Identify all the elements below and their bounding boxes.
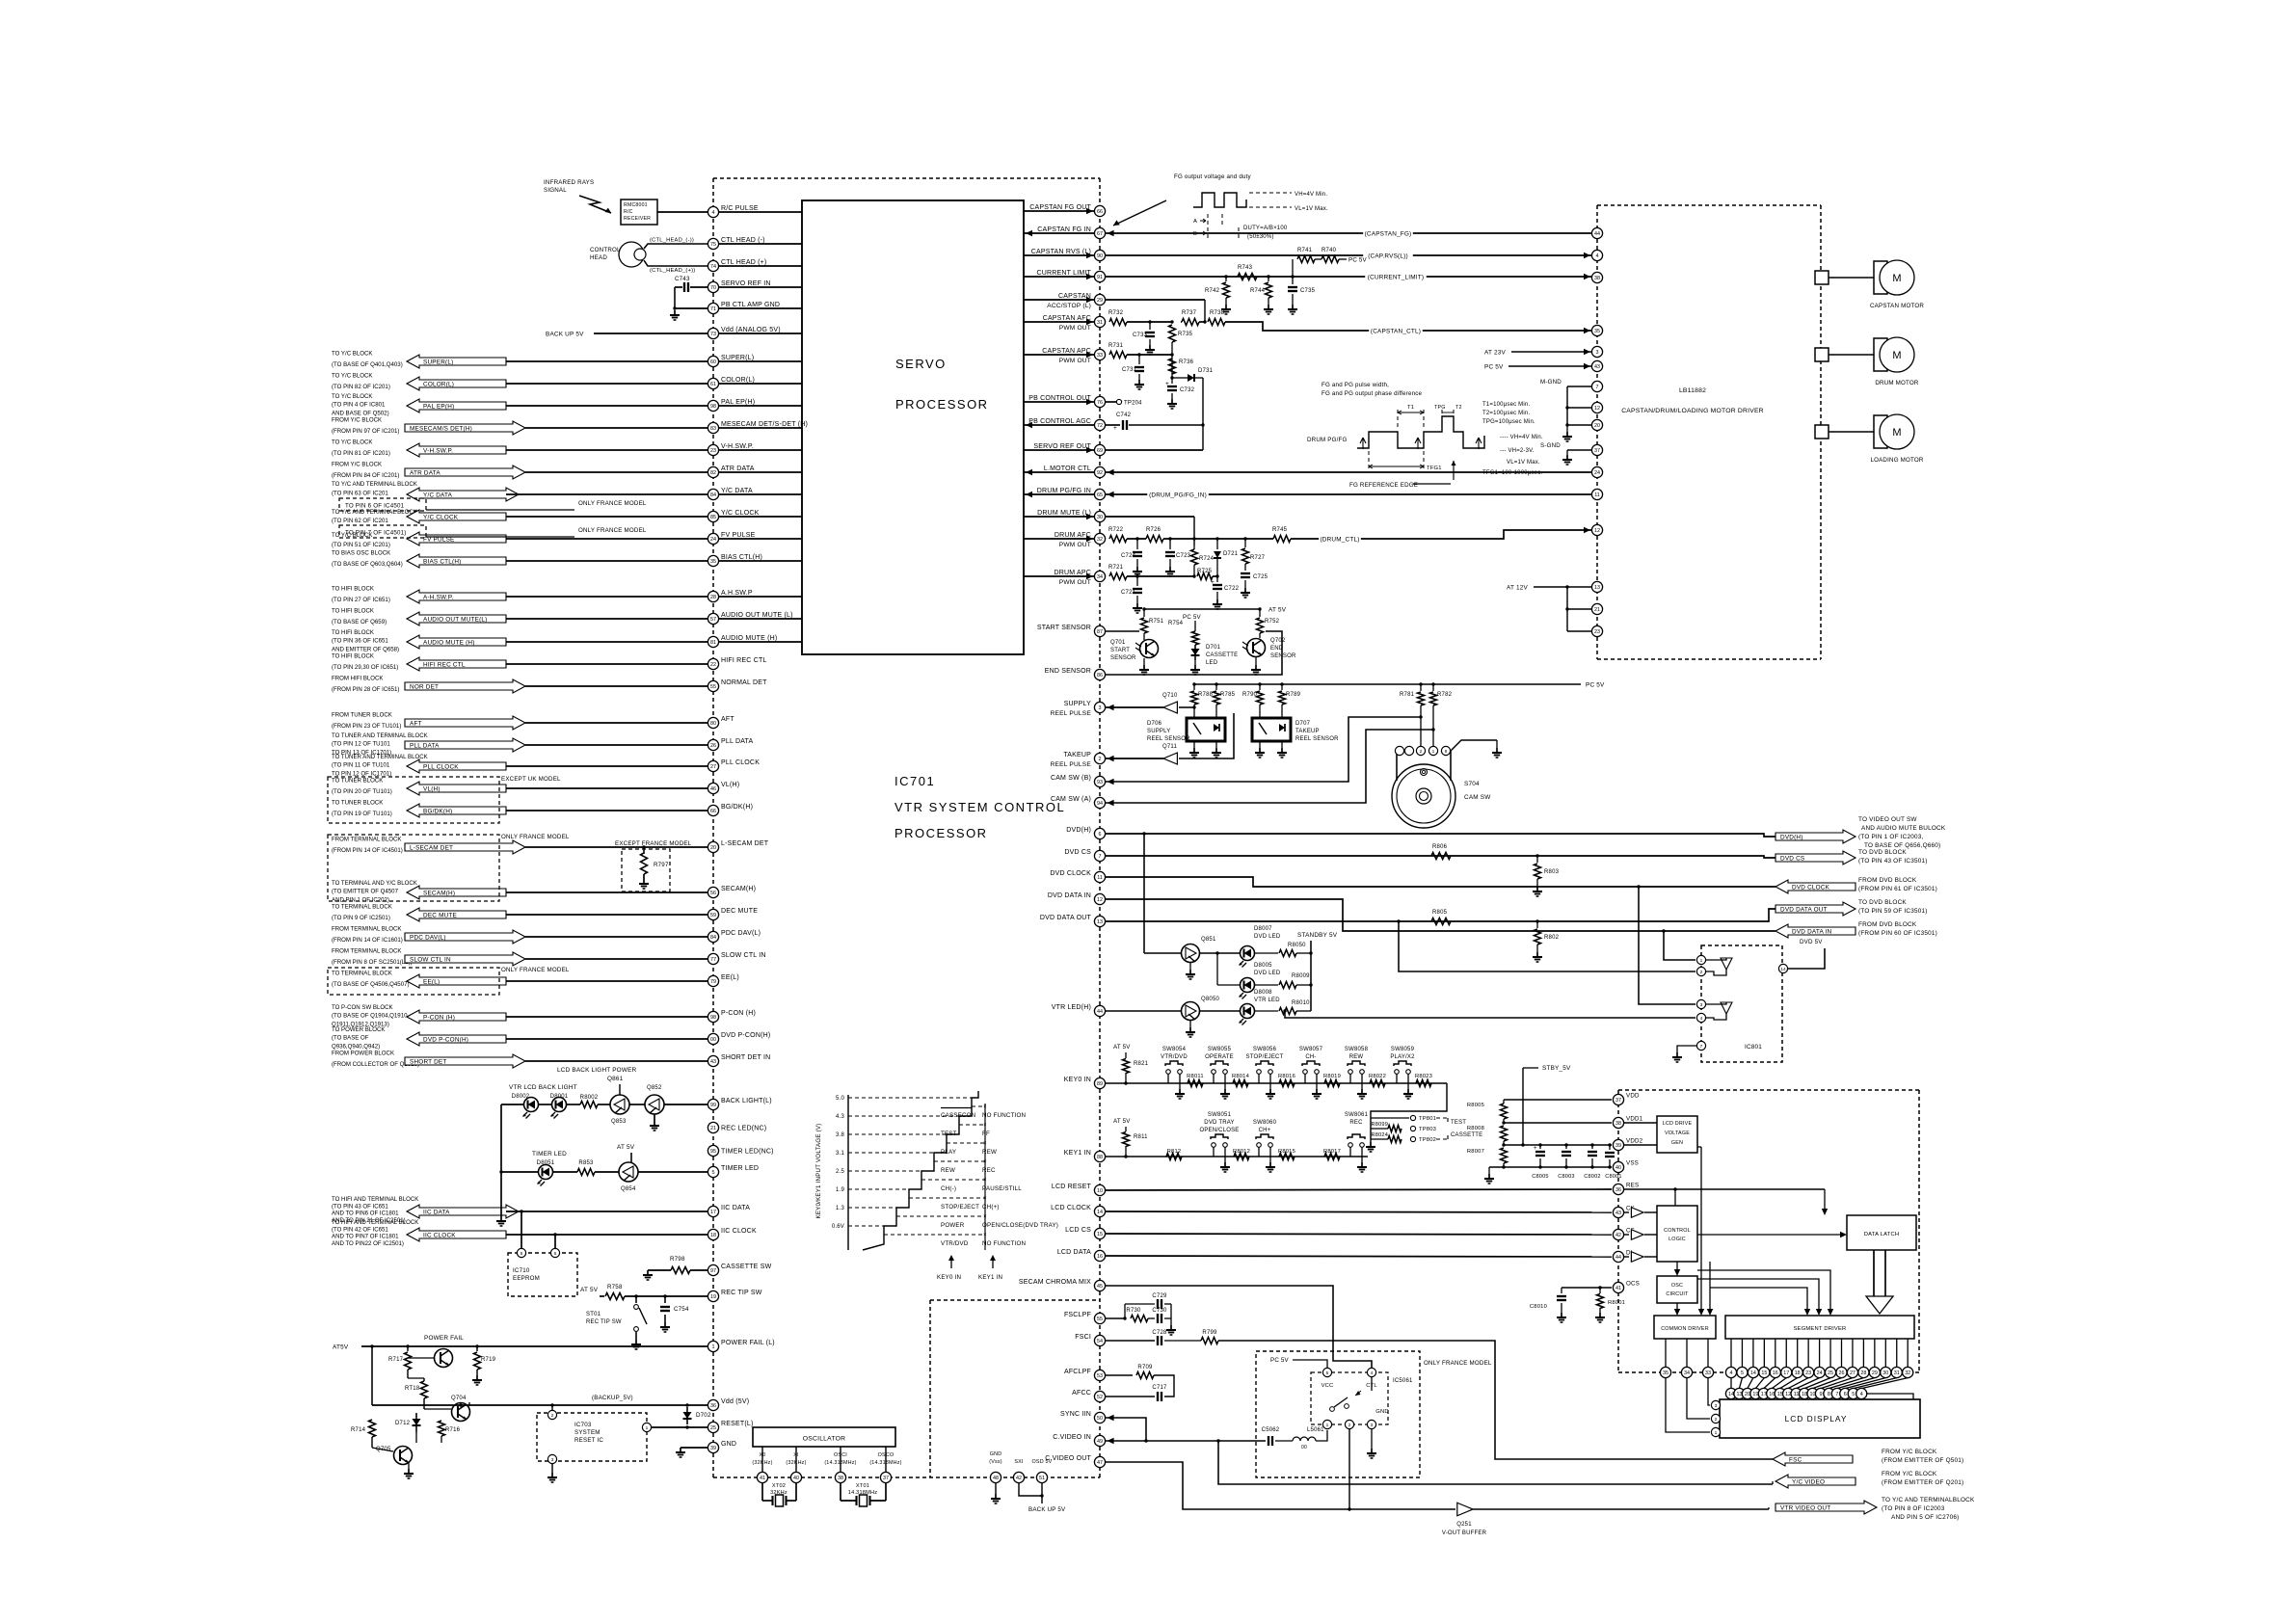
- svg-text:TO VIDEO OUT SW: TO VIDEO OUT SW: [1858, 816, 1917, 823]
- wire: [500, 1104, 502, 1216]
- svg-text:CH+: CH+: [1259, 1128, 1271, 1133]
- svg-text:97: 97: [710, 1268, 716, 1274]
- svg-text:BIAS CTL(H): BIAS CTL(H): [423, 558, 461, 565]
- svg-text:ATR DATA: ATR DATA: [410, 469, 441, 476]
- svg-text:SERVO REF IN: SERVO REF IN: [721, 280, 771, 287]
- ground: [1189, 970, 1191, 974]
- wire: [1024, 276, 1094, 278]
- svg-text:C5062: C5062: [1262, 1427, 1280, 1433]
- svg-text:49: 49: [1097, 1439, 1103, 1445]
- svg-text:DVD LED: DVD LED: [1254, 971, 1281, 976]
- ground: [1259, 748, 1261, 753]
- svg-text:ONLY FRANCE MODEL: ONLY FRANCE MODEL: [1424, 1360, 1492, 1367]
- ctrl to segment lines: [1697, 1270, 1830, 1311]
- svg-text:18: 18: [1795, 1370, 1801, 1376]
- wire iic clock to eeprom: [554, 1235, 556, 1248]
- svg-text:26: 26: [1839, 1370, 1845, 1376]
- signal tag DEC MUTE: [407, 908, 506, 921]
- svg-text:24: 24: [1817, 1370, 1823, 1376]
- svg-text:21: 21: [1594, 607, 1600, 613]
- svg-text:BACK UP 5V: BACK UP 5V: [1028, 1506, 1066, 1513]
- ground: [1255, 665, 1257, 670]
- svg-text:SYSTEM: SYSTEM: [574, 1429, 601, 1436]
- svg-text:(TO PIN 20 OF TU101): (TO PIN 20 OF TU101): [332, 788, 392, 795]
- svg-text:CASSETTE SW: CASSETTE SW: [721, 1264, 772, 1270]
- svg-text:R732: R732: [1108, 310, 1124, 316]
- resistor R730: [1131, 1316, 1148, 1322]
- svg-text:CAPSTAN FG OUT: CAPSTAN FG OUT: [1029, 204, 1091, 211]
- svg-text:7: 7: [1700, 1044, 1703, 1050]
- tag DVD DATA OUT: [1775, 902, 1855, 916]
- svg-text:R724: R724: [1199, 556, 1215, 562]
- svg-text:11: 11: [1097, 875, 1103, 881]
- resistor R724: [1191, 549, 1198, 565]
- svg-text:59: 59: [710, 913, 716, 918]
- svg-text:44: 44: [1594, 231, 1600, 237]
- resistor R738: [1208, 319, 1225, 326]
- capacitor C722: [1216, 576, 1218, 582]
- svg-text:R782: R782: [1437, 692, 1453, 698]
- svg-text:C725: C725: [1253, 574, 1268, 580]
- svg-text:C8002: C8002: [1584, 1174, 1600, 1180]
- svg-text:(TO BASE OF Q401,Q403): (TO BASE OF Q401,Q403): [332, 361, 403, 368]
- svg-text:Vdd (5V): Vdd (5V): [721, 1398, 749, 1405]
- svg-text:R722: R722: [1108, 527, 1124, 533]
- IC710 EEPROM dashed box: [508, 1253, 577, 1296]
- wire: [1024, 516, 1094, 518]
- svg-text:4: 4: [1860, 1392, 1863, 1397]
- svg-text:R745: R745: [1272, 527, 1288, 533]
- wire key0 tail: [1371, 1083, 1447, 1142]
- svg-text:R797: R797: [654, 862, 669, 868]
- svg-text:R8002: R8002: [580, 1095, 599, 1101]
- wire backup_5v: [372, 1404, 707, 1406]
- svg-text:33: 33: [1705, 1370, 1711, 1376]
- svg-text:T2=100μsec Min.: T2=100μsec Min.: [1482, 411, 1530, 416]
- svg-text:77: 77: [710, 957, 716, 963]
- svg-text:Q701: Q701: [1110, 640, 1126, 646]
- svg-text:DRUM PG/FG IN: DRUM PG/FG IN: [1037, 488, 1091, 494]
- svg-text:RES: RES: [1626, 1183, 1639, 1189]
- svg-text:(TO PIN 63 OF IC201: (TO PIN 63 OF IC201: [332, 491, 388, 497]
- svg-text:4: 4: [1371, 1370, 1374, 1376]
- svg-text:SW8059: SW8059: [1391, 1047, 1415, 1052]
- pin 5 TIMER LED: [707, 1166, 718, 1177]
- svg-text:99: 99: [710, 1103, 716, 1108]
- ground: [995, 1494, 997, 1499]
- svg-text:R802: R802: [1544, 935, 1560, 941]
- svg-text:60: 60: [710, 359, 716, 365]
- svg-text:HIFI REC CTL: HIFI REC CTL: [721, 657, 767, 664]
- svg-text:(TO PIN 43 OF IC651: (TO PIN 43 OF IC651: [332, 1203, 388, 1210]
- svg-text:CH(-): CH(-): [941, 1185, 956, 1192]
- svg-text:PB CONTROL OUT: PB CONTROL OUT: [1028, 395, 1091, 402]
- svg-text:D712: D712: [395, 1421, 411, 1426]
- svg-text:46: 46: [710, 786, 716, 792]
- wire: [1024, 299, 1094, 301]
- svg-text:TO HIFI AND TERMINAL BLOCK: TO HIFI AND TERMINAL BLOCK: [332, 1196, 418, 1203]
- svg-text:NORMAL DET: NORMAL DET: [721, 679, 767, 686]
- svg-text:BG/DK(H): BG/DK(H): [721, 804, 753, 811]
- svg-text:R751: R751: [1149, 619, 1164, 625]
- AFCC C717: [1106, 1396, 1155, 1397]
- wires common to lcd: [1666, 1378, 1710, 1432]
- svg-text:DVD DATA IN: DVD DATA IN: [1048, 892, 1091, 899]
- transistor power fail: [435, 1349, 453, 1368]
- LCD drive voltage gen: [1657, 1116, 1697, 1153]
- common driver box: [1654, 1316, 1716, 1339]
- svg-text:VH=4V Min.: VH=4V Min.: [1295, 192, 1327, 198]
- lcd display pin 18: [1804, 1378, 1830, 1389]
- svg-text:Q710: Q710: [1162, 693, 1178, 699]
- svg-text:VSS: VSS: [1626, 1160, 1639, 1167]
- svg-text:R742: R742: [1205, 288, 1220, 294]
- svg-text:R8022: R8022: [1369, 1074, 1386, 1079]
- svg-text:8: 8: [1445, 749, 1448, 755]
- ground: [1536, 887, 1538, 891]
- svg-text:COMMON DRIVER: COMMON DRIVER: [1661, 1326, 1709, 1332]
- svg-text:20: 20: [710, 845, 716, 851]
- svg-text:FROM HIFI BLOCK: FROM HIFI BLOCK: [332, 676, 384, 682]
- svg-text:CAPSTAN MOTOR: CAPSTAN MOTOR: [1870, 303, 1924, 309]
- svg-text:R725: R725: [1197, 569, 1213, 574]
- svg-text:TP801: TP801: [1419, 1116, 1436, 1122]
- signal tag SUPER(L): [407, 355, 506, 368]
- svg-text:HEAD: HEAD: [590, 254, 607, 261]
- pin 36 Vdd 5V: [707, 1399, 718, 1410]
- tag DVD CLOCK: [1775, 880, 1855, 893]
- svg-text:PC 5V: PC 5V: [1484, 363, 1504, 370]
- segment driver pin 32: [1907, 1339, 1909, 1367]
- segment driver pin 27: [1852, 1339, 1854, 1367]
- svg-text:KEY1 IN: KEY1 IN: [978, 1274, 1002, 1281]
- IC5061 inner dashed box: [1311, 1372, 1388, 1424]
- svg-text:VCC: VCC: [1322, 1383, 1334, 1389]
- svg-text:(TO PIN 27 OF IC651): (TO PIN 27 OF IC651): [332, 597, 390, 603]
- svg-text:NO FUNCTION: NO FUNCTION: [982, 1240, 1026, 1247]
- svg-text:TIMER LED: TIMER LED: [532, 1151, 567, 1157]
- pin 42 SXI: [1013, 1472, 1024, 1482]
- signal tag BG/DK(H): [407, 804, 506, 817]
- svg-text:S704: S704: [1464, 781, 1480, 787]
- svg-text:ONLY FRANCE MODEL: ONLY FRANCE MODEL: [501, 834, 570, 840]
- wire: [1024, 321, 1094, 323]
- tag DVD DATA IN: [1775, 924, 1855, 938]
- svg-text:93: 93: [1097, 780, 1103, 785]
- ground: [551, 1473, 553, 1477]
- svg-text:(TO BASE OF Q603,Q604): (TO BASE OF Q603,Q604): [332, 561, 403, 568]
- tag Y/C VIDEO: [1775, 1475, 1855, 1488]
- svg-text:FSCI: FSCI: [1075, 1334, 1091, 1341]
- svg-text:(FROM PIN 84 OF IC201): (FROM PIN 84 OF IC201): [332, 472, 399, 479]
- svg-text:23: 23: [1594, 629, 1600, 635]
- crystal XT01: [840, 1483, 841, 1501]
- svg-text:37: 37: [1615, 1098, 1621, 1104]
- resistor R8014: [1233, 1080, 1248, 1087]
- signal tag BIAS CTL(H): [407, 554, 506, 568]
- svg-text:×: ×: [983, 1159, 987, 1165]
- svg-text:72: 72: [1097, 423, 1103, 429]
- segment driver pin 23: [1807, 1339, 1809, 1367]
- svg-text:LOGIC: LOGIC: [1669, 1237, 1686, 1242]
- svg-text:20: 20: [1745, 1392, 1750, 1397]
- svg-text:14: 14: [1097, 1210, 1103, 1215]
- wire: [506, 516, 707, 518]
- svg-text:1.9: 1.9: [836, 1187, 844, 1193]
- svg-text:0.6V: 0.6V: [832, 1224, 844, 1230]
- svg-text:3: 3: [1700, 1002, 1703, 1008]
- wire: [506, 980, 707, 982]
- ground: [1136, 603, 1138, 608]
- transistor Q853: [610, 1095, 629, 1114]
- wire: [719, 618, 802, 620]
- svg-text:B: B: [1193, 231, 1197, 237]
- svg-text:DVD DATA OUT: DVD DATA OUT: [1780, 906, 1828, 913]
- wire CAPSTAN_CTL: [1225, 322, 1591, 331]
- ground: [1169, 567, 1171, 572]
- svg-text:48: 48: [993, 1476, 999, 1481]
- svg-text:FROM TERMINAL BLOCK: FROM TERMINAL BLOCK: [332, 948, 401, 955]
- lcd pin 39 VDD2: [1613, 1139, 1623, 1150]
- svg-text:OSCO: OSCO: [878, 1452, 894, 1458]
- svg-text:1: 1: [646, 1425, 649, 1431]
- dashed box france secam: [328, 835, 499, 901]
- svg-text:C8003: C8003: [1558, 1174, 1574, 1180]
- svg-text:TO TERMINAL AND Y/C BLOCK: TO TERMINAL AND Y/C BLOCK: [332, 880, 417, 887]
- svg-text:19: 19: [1752, 1392, 1758, 1397]
- svg-text:10: 10: [1810, 1392, 1816, 1397]
- svg-text:R806: R806: [1432, 844, 1448, 850]
- svg-text:XT02: XT02: [772, 1483, 786, 1489]
- resistor R8008: [1501, 1126, 1508, 1141]
- svg-text:R789: R789: [1286, 692, 1301, 698]
- svg-text:TIMER LED(NC): TIMER LED(NC): [721, 1148, 774, 1155]
- svg-text:VTR/DVD: VTR/DVD: [1161, 1054, 1188, 1060]
- svg-text:Q251: Q251: [1456, 1522, 1472, 1528]
- capacitor C8010: [1561, 1288, 1562, 1293]
- pin 21 REC LED: [707, 1122, 718, 1132]
- svg-text:GND: GND: [990, 1451, 1002, 1457]
- ground: [674, 310, 676, 315]
- svg-text:FROM DVD BLOCK: FROM DVD BLOCK: [1858, 921, 1917, 928]
- svg-text:STANDBY 5V: STANDBY 5V: [1297, 932, 1338, 939]
- lb1882 pin 24: [1591, 466, 1602, 477]
- svg-text:TO HIFI BLOCK: TO HIFI BLOCK: [332, 629, 374, 636]
- resistor R719: [476, 1346, 478, 1351]
- svg-text:TO TUNER BLOCK: TO TUNER BLOCK: [332, 800, 383, 807]
- svg-text:50: 50: [1097, 1416, 1103, 1422]
- test point TP204: [1106, 401, 1116, 403]
- resistor R758: [605, 1293, 625, 1300]
- svg-text:SENSOR: SENSOR: [1110, 655, 1136, 661]
- svg-text:R758: R758: [607, 1284, 623, 1290]
- resistor R797: [641, 853, 648, 874]
- svg-text:CAPSTAN: CAPSTAN: [1058, 293, 1091, 300]
- svg-text:CH-: CH-: [1305, 1054, 1316, 1060]
- ground: [1676, 1052, 1678, 1057]
- cam switch S704: [1392, 764, 1455, 828]
- ground: [1268, 305, 1269, 309]
- ground: [664, 1322, 666, 1327]
- capacitor C728: [1157, 1336, 1159, 1345]
- ck cs di buffers: [1624, 1211, 1629, 1213]
- svg-text:SIGNAL: SIGNAL: [544, 187, 567, 194]
- svg-text:16: 16: [1773, 1370, 1778, 1376]
- wire: [506, 538, 707, 540]
- svg-text:CASSETTE: CASSETTE: [1451, 1132, 1482, 1138]
- wire CAP.RVS(L): [1106, 254, 1592, 256]
- wire SECAM CHROMA MIX: [1106, 1286, 1372, 1368]
- lcd display pin 14: [1730, 1378, 1732, 1389]
- wire: [506, 449, 707, 451]
- wire CAPSTAN_FG: [1106, 232, 1592, 234]
- ground: [1496, 748, 1498, 753]
- lcd display pin 17: [1764, 1378, 1775, 1389]
- svg-text:CAM SW (B): CAM SW (B): [1051, 775, 1091, 782]
- ground: [1561, 1313, 1562, 1317]
- pin 95 TIMER LED NC: [707, 1145, 718, 1156]
- svg-text:TO P-CON SW BLOCK: TO P-CON SW BLOCK: [332, 1004, 393, 1011]
- SYNC IIN: [1108, 1415, 1114, 1421]
- svg-text:COLOR(L): COLOR(L): [423, 381, 454, 387]
- svg-text:LB11882: LB11882: [1679, 387, 1706, 394]
- tag VTR VIDEO OUT: [1775, 1501, 1877, 1514]
- lcd display pin 20: [1748, 1378, 1753, 1389]
- lcd display pin 10: [1813, 1378, 1842, 1389]
- pin 41: [757, 1472, 767, 1482]
- svg-text:LCD BACK LIGHT POWER: LCD BACK LIGHT POWER: [557, 1067, 637, 1074]
- svg-text:TO Y/C AND TERMINALBLOCK: TO Y/C AND TERMINALBLOCK: [1882, 1497, 1975, 1503]
- ground: [1566, 432, 1568, 437]
- resistor R790: [1259, 684, 1261, 690]
- svg-text:FG and PG pulse width,: FG and PG pulse width,: [1322, 382, 1389, 388]
- resistor RT18: [421, 1381, 428, 1398]
- svg-text:14.318MHz: 14.318MHz: [848, 1490, 877, 1496]
- svg-text:80: 80: [710, 721, 716, 727]
- signal tag PLL DATA: [405, 738, 525, 752]
- svg-text:ONLY FRANCE MODEL: ONLY FRANCE MODEL: [578, 500, 647, 507]
- svg-text:(FROM EMITTER OF Q201): (FROM EMITTER OF Q201): [1882, 1479, 1963, 1486]
- wire: [674, 287, 676, 308]
- wire DVD CS: [1106, 856, 1775, 858]
- svg-text:STOP/EJECT: STOP/EJECT: [1246, 1054, 1284, 1060]
- resistor R789: [1281, 684, 1283, 690]
- resistor R717: [407, 1346, 409, 1351]
- svg-text:IC710: IC710: [513, 1267, 530, 1274]
- svg-text:AUDIO MUTE (H): AUDIO MUTE (H): [721, 635, 777, 642]
- svg-text:53: 53: [1097, 1373, 1103, 1379]
- resistor R8050: [1279, 950, 1296, 957]
- wire: [719, 516, 802, 518]
- svg-text:12: 12: [1785, 1392, 1791, 1397]
- svg-text:FROM POWER BLOCK: FROM POWER BLOCK: [332, 1051, 394, 1057]
- lb1882 pin 12: [1591, 524, 1602, 535]
- svg-text:STBY_5V: STBY_5V: [1542, 1065, 1571, 1072]
- resistor R8005: [1501, 1104, 1508, 1119]
- svg-text:R721: R721: [1108, 565, 1124, 571]
- svg-text:CAPSTAN/DRUM/LOADING MOTOR DRI: CAPSTAN/DRUM/LOADING MOTOR DRIVER: [1621, 408, 1764, 414]
- ground: [1361, 1162, 1363, 1167]
- buffer Q251 V-OUT: [1457, 1503, 1473, 1516]
- svg-text:(FROM PIN 14 OF IC4501): (FROM PIN 14 OF IC4501): [332, 847, 403, 854]
- transistor Q702 end sensor: [1247, 639, 1266, 657]
- signal tag V-H.SW.P.: [407, 443, 506, 457]
- lcd pins 3 2 1: [1711, 1400, 1720, 1409]
- wire CURRENT_LIMIT: [1106, 276, 1592, 278]
- ground: [1170, 1325, 1172, 1330]
- pin 19 REC TIP SW: [707, 1290, 718, 1301]
- svg-text:TP802: TP802: [1419, 1137, 1436, 1143]
- svg-text:LCD DATA: LCD DATA: [1057, 1249, 1091, 1256]
- wire CAM SW A: [1106, 730, 1433, 803]
- svg-text:R726: R726: [1146, 527, 1161, 533]
- svg-text:Q852: Q852: [647, 1085, 662, 1091]
- svg-text:KEY0 IN: KEY0 IN: [1064, 1077, 1091, 1083]
- wires vdd rows: [1504, 1099, 1612, 1101]
- svg-text:Y/C VIDEO: Y/C VIDEO: [1792, 1478, 1825, 1485]
- svg-text:R719: R719: [481, 1357, 496, 1363]
- diode D721: [1215, 537, 1218, 540]
- svg-text:41: 41: [1615, 1286, 1621, 1291]
- svg-text:POWER FAIL: POWER FAIL: [424, 1335, 464, 1342]
- wire: [506, 641, 707, 643]
- svg-text:IC5061: IC5061: [1393, 1378, 1413, 1384]
- transistor Q852: [645, 1095, 664, 1114]
- ground: [1189, 1027, 1191, 1032]
- svg-text:R730: R730: [1126, 1308, 1141, 1314]
- svg-text:IIC CLOCK: IIC CLOCK: [423, 1232, 456, 1238]
- svg-text:AT 23V: AT 23V: [1484, 349, 1506, 356]
- svg-text:R743: R743: [1238, 265, 1253, 271]
- svg-text:C729: C729: [1152, 1293, 1167, 1299]
- lb1882 pin 35: [1591, 325, 1602, 335]
- svg-text:4: 4: [712, 210, 715, 216]
- pin 14 dvd 5v: [1778, 964, 1787, 972]
- svg-text:TO Y/C BLOCK: TO Y/C BLOCK: [332, 393, 372, 400]
- svg-text:35: 35: [1663, 1370, 1669, 1376]
- svg-text:R853: R853: [578, 1160, 594, 1166]
- svg-text:×: ×: [983, 1178, 987, 1184]
- svg-text:FROM Y/C BLOCK: FROM Y/C BLOCK: [1882, 1449, 1937, 1455]
- signal tag SLOW CTL IN: [405, 952, 525, 966]
- RMC8001 R/C receiver box: [621, 200, 657, 225]
- svg-text:R754: R754: [1168, 621, 1184, 626]
- wire: [525, 685, 707, 687]
- svg-text:7: 7: [1099, 854, 1102, 860]
- svg-text:TO DVD BLOCK: TO DVD BLOCK: [1858, 849, 1907, 856]
- svg-text:P-CON (H): P-CON (H): [423, 1014, 455, 1021]
- svg-text:REEL PULSE: REEL PULSE: [1051, 710, 1092, 717]
- svg-text:41: 41: [760, 1476, 765, 1481]
- resistor R8019: [1324, 1080, 1340, 1087]
- lcd display pin 15: [1780, 1378, 1798, 1389]
- svg-text:GND: GND: [1375, 1409, 1388, 1415]
- svg-text:TO Y/C AND TERMINAL BLOCK: TO Y/C AND TERMINAL BLOCK: [332, 509, 417, 516]
- ground: [1215, 748, 1217, 753]
- svg-text:PROCESSOR: PROCESSOR: [895, 397, 989, 412]
- svg-text:39: 39: [1615, 1143, 1621, 1149]
- resistor R853: [577, 1169, 595, 1176]
- servo processor block: [802, 200, 1024, 654]
- svg-text:R738: R738: [1210, 310, 1225, 316]
- svg-text:28: 28: [710, 595, 716, 600]
- svg-text:PC 5V: PC 5V: [1586, 681, 1605, 688]
- svg-text:VL(H): VL(H): [721, 782, 739, 788]
- wire: [719, 560, 802, 562]
- resistor R727: [1243, 537, 1246, 540]
- transistor Q701 start sensor: [1140, 640, 1159, 658]
- wire to IC801 pin3: [1639, 887, 1695, 1004]
